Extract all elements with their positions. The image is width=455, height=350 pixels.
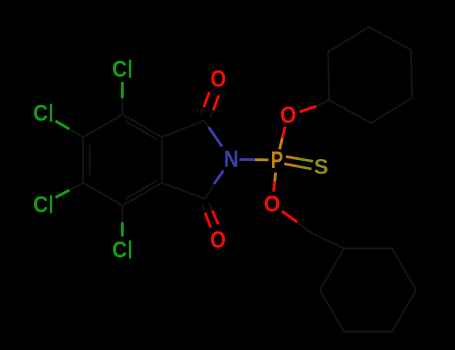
carbonyl C=O (bottom) bbox=[202, 203, 225, 248]
benzene ring (tetrachlorophenylene, dark carbon skeleton) bbox=[83, 115, 162, 206]
chlorine Cl (bottom) bbox=[113, 206, 131, 259]
CH2-ring bond (lower) bbox=[313, 234, 345, 249]
imide five-ring carbon bonds bbox=[162, 121, 214, 200]
N-P bond bbox=[240, 158, 269, 161]
chlorine Cl (lower left) bbox=[34, 183, 83, 213]
O-C bond to upper cyclohexyl bbox=[300, 100, 330, 112]
chlorine Cl (top) bbox=[113, 60, 131, 115]
chlorine Cl (upper left) bbox=[34, 104, 83, 137]
cyclohexane ring (lower right, dark) bbox=[320, 248, 416, 331]
carbonyl C=O (top) bbox=[201, 70, 225, 118]
P=S double bond bbox=[284, 157, 313, 169]
phosphorus P bbox=[272, 152, 283, 169]
cyclohexane ring (upper right, dark) bbox=[328, 27, 412, 123]
P-O bond (upper ester) bbox=[280, 127, 286, 150]
P-O bond (lower ester) bbox=[274, 173, 276, 192]
ester oxygen O (lower) bbox=[265, 196, 280, 212]
O-CH2 bond to lower ring bbox=[282, 211, 313, 233]
sulfur S bbox=[315, 159, 328, 174]
ester oxygen O (upper) bbox=[281, 107, 296, 124]
nitrogen N bbox=[209, 127, 238, 184]
